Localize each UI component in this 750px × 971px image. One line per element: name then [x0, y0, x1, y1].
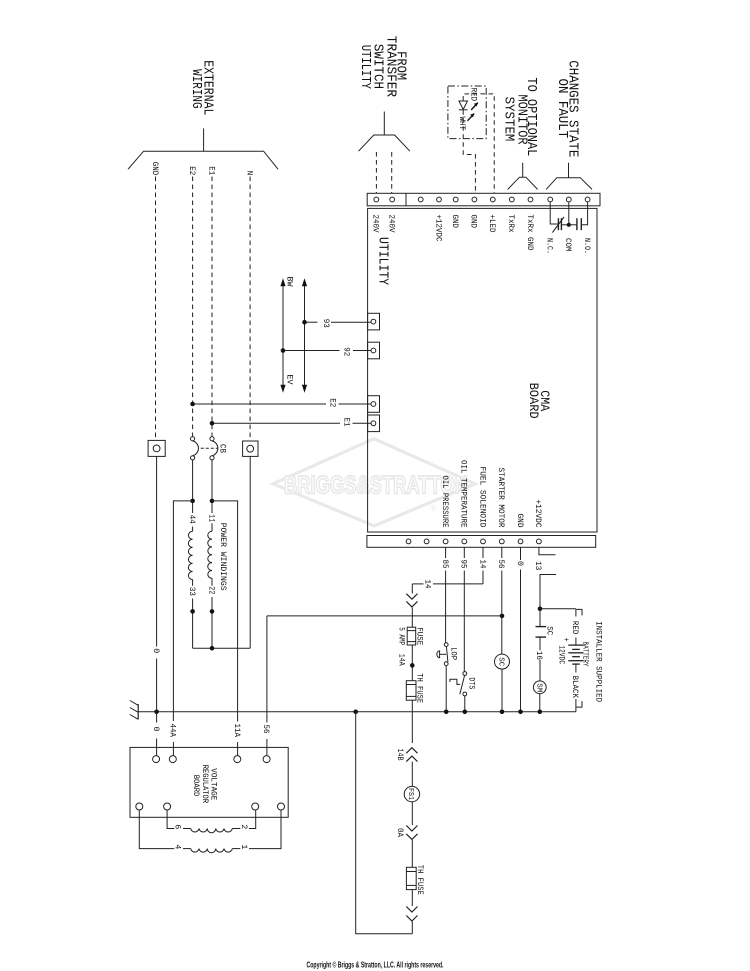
VR terminal 0 — [153, 756, 160, 763]
wire LED RED to +LED terminal (dashed) — [463, 94, 494, 193]
svg-text:VOLTAGE: VOLTAGE — [209, 768, 218, 800]
terminal OIL TEMPERATURE — [462, 539, 467, 544]
svg-text:BW: BW — [285, 277, 294, 287]
VR terminal 4 — [136, 803, 143, 810]
wire 14 horizontal — [433, 583, 483, 585]
wire below TH FUSE — [411, 700, 413, 743]
svg-text:POWER WINDINGS: POWER WINDINGS — [218, 523, 227, 591]
svg-text:SC: SC — [496, 657, 504, 666]
double arrow wire B — [304, 286, 306, 385]
terminal (unlabeled) — [424, 539, 429, 544]
ground symbol — [137, 704, 139, 720]
relay N.C. slash — [552, 217, 564, 233]
svg-text:+12VDC: +12VDC — [533, 500, 542, 528]
VR terminal 6 — [164, 803, 171, 810]
wire 0 to VR board — [156, 712, 158, 723]
CMA board input terminal strip — [367, 193, 600, 206]
wire CB2 to winding 11 — [211, 460, 213, 513]
terminal 240V-2 — [390, 197, 395, 202]
svg-text:SC: SC — [544, 626, 553, 635]
junction 92 on arrow A — [281, 348, 286, 353]
svg-text:14: 14 — [423, 580, 432, 589]
terminal N.C. — [548, 197, 553, 202]
junction 13-RED — [538, 607, 543, 612]
terminal OIL PRESSURE — [443, 539, 448, 544]
wire E2 (dashed) — [192, 177, 194, 437]
board tab terminal E2 — [368, 396, 380, 413]
fuse TH FUSE — [406, 681, 416, 701]
svg-text:16: 16 — [534, 651, 543, 660]
terminal 240V-1 — [374, 197, 379, 202]
wire 95 — [463, 547, 465, 558]
svg-text:GND: GND — [515, 514, 524, 528]
terminal COM — [566, 197, 571, 202]
junction neutral — [210, 646, 215, 651]
wire E2 tap — [193, 403, 326, 405]
junction bus-14B chain — [353, 710, 358, 715]
svg-text:FS1: FS1 — [406, 788, 414, 800]
wire 11A tap — [212, 501, 238, 722]
junction E2 — [190, 402, 195, 407]
junction bus-SM — [538, 710, 543, 715]
svg-text:WHT: WHT — [457, 117, 466, 131]
junction 22 — [210, 609, 215, 614]
wire return to bus — [356, 712, 413, 934]
svg-text:44: 44 — [187, 515, 196, 524]
wire 85 — [445, 547, 447, 558]
svg-text:CB: CB — [218, 444, 227, 453]
voltage regulator board outline — [130, 747, 288, 817]
wire 11A to VR board — [237, 742, 239, 756]
svg-text:+: + — [561, 638, 570, 642]
relay N.O. contact plates — [576, 218, 578, 230]
svg-text:1: 1 — [239, 844, 248, 849]
svg-text:13: 13 — [533, 561, 542, 570]
svg-text:+LED: +LED — [487, 215, 496, 233]
svg-text:REGULATOR: REGULATOR — [200, 765, 209, 804]
VR terminal 1 — [278, 803, 285, 810]
svg-text:OIL TEMPERATURE: OIL TEMPERATURE — [459, 460, 468, 528]
svg-text:11: 11 — [206, 514, 215, 522]
wire 14 from FUEL SOLENOID — [482, 547, 484, 558]
svg-text:UTILITY: UTILITY — [357, 45, 373, 90]
svg-text:56: 56 — [261, 725, 270, 734]
board tab terminal 92 — [368, 342, 380, 359]
svg-text:WIRING: WIRING — [188, 69, 204, 109]
svg-text:TH FUSE: TH FUSE — [415, 865, 424, 895]
svg-text:SYSTEM: SYSTEM — [501, 97, 517, 142]
svg-text:DTS: DTS — [467, 677, 476, 689]
neutral tie wire 33-22-N — [193, 647, 251, 649]
svg-text:95: 95 — [459, 560, 468, 569]
junction bus-0 — [154, 710, 159, 715]
sense winding 4-1 — [139, 810, 174, 849]
svg-text:STARTER MOTOR: STARTER MOTOR — [496, 468, 505, 528]
svg-text:RED: RED — [570, 621, 579, 635]
fault bracket — [568, 163, 570, 178]
svg-text:COM: COM — [563, 238, 572, 252]
SC contact plates — [536, 626, 547, 628]
terminal +12VDC — [537, 539, 542, 544]
svg-text:92: 92 — [341, 347, 350, 356]
svg-text:0: 0 — [151, 727, 160, 732]
wire 240V line2 (dashed) — [391, 152, 393, 193]
terminal +LED — [490, 197, 495, 202]
board tab terminal 93 — [368, 313, 380, 330]
sender FS1 — [404, 786, 419, 801]
wire N (dashed) — [249, 177, 251, 442]
svg-text:INSTALLER SUPPLIED: INSTALLER SUPPLIED — [593, 621, 602, 702]
fuse TH FUSE 2 — [406, 867, 416, 889]
svg-text:4: 4 — [173, 844, 182, 849]
circuit breaker CB pole 1 — [191, 437, 195, 441]
LED emission arrows — [468, 103, 478, 121]
svg-text:93: 93 — [321, 319, 330, 328]
svg-text:EV: EV — [285, 375, 294, 385]
svg-text:BOARD: BOARD — [191, 775, 200, 797]
junction bus-SC — [500, 710, 505, 715]
svg-text:11A: 11A — [232, 724, 241, 738]
external-wiring bracket — [203, 128, 205, 151]
relay contact N.O. wire — [581, 202, 587, 225]
wire 56 horizontal — [267, 615, 502, 617]
svg-text:E2: E2 — [327, 398, 336, 407]
board tab terminal E1 — [368, 415, 380, 432]
terminal lug N — [243, 441, 258, 456]
wire 240V line1 (dashed) — [375, 152, 377, 193]
LED D1 — [459, 101, 468, 109]
svg-text:0: 0 — [515, 561, 524, 566]
svg-text:BLACK: BLACK — [570, 676, 579, 699]
wire CB1 to winding 44 — [192, 460, 194, 513]
CMA board outline — [368, 208, 597, 532]
circuit breaker CB pole 2 — [210, 437, 214, 441]
fuse F 5 AMP — [407, 627, 416, 645]
svg-text:BOARD: BOARD — [526, 383, 541, 419]
starter contactor coil SC — [495, 654, 510, 669]
battery B1 — [568, 644, 583, 646]
svg-text:UTILITY: UTILITY — [375, 237, 391, 286]
temperature switch DTS — [463, 672, 467, 676]
terminal TxRx GND — [528, 197, 533, 202]
svg-text:0A: 0A — [395, 828, 404, 837]
LED indicator assembly box (dash-dot) — [448, 86, 486, 139]
svg-text:22: 22 — [206, 586, 215, 594]
pressure switch LOP — [444, 643, 448, 647]
junction 93 on arrow B — [302, 320, 307, 325]
transfer-switch bracket — [383, 112, 385, 136]
CMA board output terminal strip — [367, 536, 596, 548]
svg-text:14B: 14B — [395, 749, 404, 761]
terminal GND — [518, 539, 523, 544]
svg-text:240V: 240V — [387, 215, 396, 233]
junction bus-LOP — [444, 710, 449, 715]
watermark Briggs & Stratton emblem — [273, 439, 475, 526]
svg-text:®: ® — [430, 503, 437, 513]
svg-text:2: 2 — [239, 824, 248, 829]
wire RED (battery +) — [540, 608, 576, 610]
svg-text:TxRx GND: TxRx GND — [525, 215, 534, 251]
wire 44A tap — [173, 501, 192, 721]
terminal +12VDC — [437, 197, 442, 202]
svg-text:E2: E2 — [187, 166, 196, 175]
terminal GND-1 — [453, 197, 458, 202]
wire BLACK (battery -) — [575, 664, 577, 672]
terminal STARTER MOTOR — [499, 539, 504, 544]
terminal lug GND — [148, 440, 165, 456]
svg-text:FUSE: FUSE — [414, 627, 423, 645]
svg-text:BATTERY: BATTERY — [580, 642, 588, 668]
wire LED WHT to GND terminal (dashed) — [463, 110, 475, 193]
terminal (unlabeled) — [406, 539, 411, 544]
wire 13 from +12VDC — [539, 547, 556, 555]
relay contact N.C. wire — [550, 202, 558, 224]
wire GND (dashed) — [155, 177, 157, 441]
svg-text:N.O.: N.O. — [582, 238, 591, 254]
svg-text:GND: GND — [150, 162, 159, 176]
svg-text:GND: GND — [450, 215, 459, 229]
junction bus-DTS — [463, 710, 468, 715]
wire 93 — [305, 321, 318, 323]
wire 0 from CMA GND — [520, 547, 522, 560]
svg-text:GND: GND — [469, 215, 478, 229]
wire E1 (dashed) — [211, 177, 213, 437]
chevron marks 14B — [406, 748, 417, 754]
wire 0 (GND lug to bus) — [156, 456, 158, 646]
svg-text:85: 85 — [440, 560, 449, 569]
terminal TxRx — [509, 197, 514, 202]
VR terminal 11A — [234, 756, 241, 763]
double arrow wire A — [282, 286, 284, 385]
svg-text:N.C.: N.C. — [545, 238, 554, 254]
svg-text:5 AMP: 5 AMP — [397, 627, 406, 645]
svg-text:LOP: LOP — [449, 647, 458, 660]
svg-text:TH FUSE: TH FUSE — [414, 673, 423, 703]
chevron marks — [406, 594, 417, 600]
junction 33 — [190, 609, 195, 614]
sense winding 6-2 — [167, 810, 174, 829]
wire 56 to VR board — [266, 616, 268, 723]
svg-text:33: 33 — [187, 587, 196, 596]
starter motor SM — [533, 681, 546, 694]
relay COM wire — [568, 202, 570, 225]
bus wire (neutral/ground bus) — [138, 711, 576, 713]
terminal (unlabeled) — [418, 197, 423, 202]
svg-text:OIL PRESSURE: OIL PRESSURE — [440, 476, 449, 528]
svg-text:14: 14 — [477, 560, 486, 569]
svg-text:12VDC: 12VDC — [556, 645, 565, 664]
chevron marks 0A — [406, 826, 417, 832]
VR terminal 56 — [263, 756, 270, 763]
svg-text:+12VDC: +12VDC — [433, 215, 442, 242]
terminal N.O. — [585, 197, 590, 202]
svg-text:N: N — [244, 171, 253, 176]
svg-text:0: 0 — [151, 648, 160, 653]
wire 44A to VR board — [172, 742, 174, 756]
relay contact plate link to COM — [561, 224, 568, 226]
svg-text:E1: E1 — [341, 418, 350, 427]
wire 14 drop — [411, 584, 413, 594]
relay N.C. contact plates — [557, 218, 559, 230]
VR terminal 44A — [169, 756, 176, 763]
svg-text:14A: 14A — [397, 654, 406, 666]
wire 56 from STARTER MOTOR — [501, 547, 503, 558]
terminal GND-2 — [472, 197, 477, 202]
junction 44A tap — [190, 499, 195, 504]
junction 56-SC — [500, 614, 505, 619]
installer-supplied bracket — [577, 609, 583, 615]
winding 44-33 — [188, 531, 192, 579]
CB tie (dashed) — [201, 447, 218, 449]
wire E1 tap — [212, 422, 340, 424]
VR terminal 2 — [252, 803, 259, 810]
junction bus-0cma — [518, 710, 523, 715]
junction 11A tap — [210, 499, 215, 504]
winding 11-22 — [208, 531, 212, 578]
svg-text:6: 6 — [173, 824, 182, 829]
svg-text:E1: E1 — [206, 166, 215, 175]
svg-text:44A: 44A — [168, 724, 177, 738]
terminal FUEL SOLENOID — [481, 539, 486, 544]
junction 14A — [410, 663, 415, 668]
svg-text:Copyright © Briggs & Stratton,: Copyright © Briggs & Stratton, LLC. All … — [307, 961, 444, 970]
chevron marks return — [406, 907, 417, 913]
junction E1 — [210, 421, 215, 426]
svg-text:240V: 240V — [371, 215, 380, 233]
svg-text:FUEL SOLENOID: FUEL SOLENOID — [477, 467, 486, 528]
wire N down to tie — [249, 456, 251, 648]
junction COM — [567, 223, 571, 227]
svg-text:SM: SM — [534, 683, 542, 692]
svg-text:ON FAULT: ON FAULT — [554, 79, 570, 139]
strip divider — [405, 193, 407, 206]
monitor bracket — [522, 163, 524, 178]
wire 92 — [283, 350, 340, 352]
svg-text:RED: RED — [468, 88, 477, 102]
svg-text:56: 56 — [496, 560, 505, 569]
svg-text:TxRx: TxRx — [506, 215, 515, 233]
